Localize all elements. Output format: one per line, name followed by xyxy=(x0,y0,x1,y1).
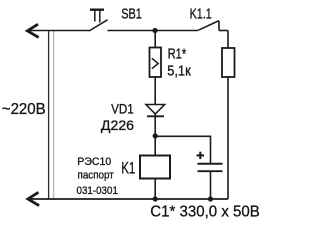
wire: bottom rail xyxy=(28,198,228,200)
wire: K1 coil to bottom rail xyxy=(154,179,156,200)
relay contact K1.1 xyxy=(198,21,228,31)
push-button SB1 xyxy=(89,10,108,31)
svg-text:VD1: VD1 xyxy=(111,100,134,116)
diode VD1 cathode bar xyxy=(147,115,164,117)
wire: R1 to diode VD1 xyxy=(154,77,156,105)
node C (junction of C1 and bottom rail) xyxy=(208,196,213,201)
diode VD1 xyxy=(146,105,165,115)
capacitor C1 bottom plate xyxy=(198,170,223,172)
wire: top rail, SB1 to relay contact K1.1 xyxy=(108,30,199,32)
node D (junction of K1 branch and bottom rail) xyxy=(153,196,158,201)
wire: node B to capacitor C1 xyxy=(155,136,210,163)
svg-text:031-0301: 031-0301 xyxy=(77,185,119,198)
svg-text:~220В: ~220В xyxy=(2,100,46,118)
node A (junction of top rail and R1 branch) xyxy=(152,28,157,33)
svg-text:5,1к: 5,1к xyxy=(167,63,192,79)
label РЭС10 паспорт 031-0301 xyxy=(77,156,119,198)
capacitor C1 top plate xyxy=(198,163,223,165)
svg-text:SB1: SB1 xyxy=(121,5,142,22)
load resistor (right branch rectangle) xyxy=(222,48,235,77)
resistor R1 chevron mark xyxy=(152,58,158,68)
wire: top rail, terminal to SB1 xyxy=(29,30,90,32)
wire: capacitor C1 to bottom rail xyxy=(210,171,212,199)
svg-text:Д226: Д226 xyxy=(101,117,134,133)
node B (junction below diode) xyxy=(153,133,158,138)
svg-text:R1*: R1* xyxy=(168,45,187,62)
wire: node B to relay coil K1 xyxy=(154,136,156,155)
wire: left vertical link (light echo line) xyxy=(53,31,55,198)
svg-text:K1.1: K1.1 xyxy=(190,5,212,22)
wire: VD1 to node B xyxy=(154,114,156,136)
wire: node A to resistor R1 xyxy=(154,31,156,48)
mains terminal arrow (top) xyxy=(27,25,37,37)
svg-text:K1: K1 xyxy=(121,159,135,178)
svg-text:паспорт: паспорт xyxy=(78,169,114,182)
resistor R1 xyxy=(150,48,162,78)
svg-text:C1* 330,0 x 50В: C1* 330,0 x 50В xyxy=(150,203,259,221)
wire: left vertical link xyxy=(48,31,50,200)
svg-text:РЭС10: РЭС10 xyxy=(77,156,111,168)
relay coil K1 xyxy=(140,156,170,179)
wire: K1.1 to load resistor xyxy=(227,31,229,49)
capacitor C1 polarity + xyxy=(197,152,204,159)
wire: load resistor to bottom rail xyxy=(227,77,229,199)
mains terminal arrow (bottom) xyxy=(28,193,38,205)
